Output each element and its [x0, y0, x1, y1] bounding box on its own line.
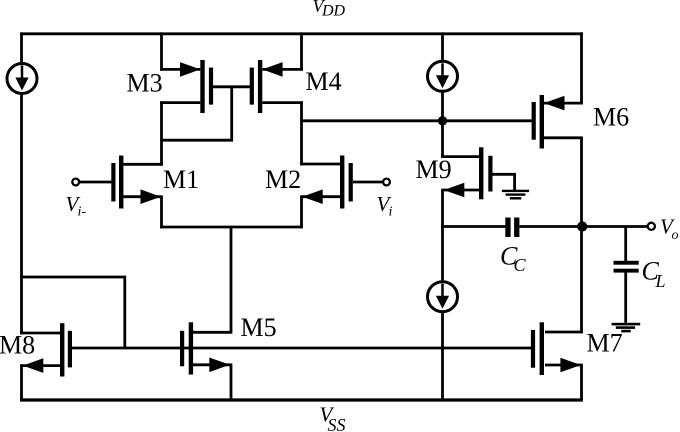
- transistor M6 gate bar: [532, 102, 536, 140]
- transistor M1 source arrow: [141, 189, 161, 204]
- wire VDD to current source I2: [441, 32, 444, 60]
- wire tail dropper to M5 drain: [230, 227, 233, 334]
- wire M1 gate lead: [79, 181, 111, 184]
- svg-text:M2: M2: [265, 165, 301, 194]
- wire M3 drain lead: [160, 101, 200, 104]
- current source I3 arrowhead: [436, 296, 449, 309]
- wire M2 gate lead: [353, 181, 383, 184]
- capacitor CL top plate: [614, 261, 639, 265]
- capacitor CL bottom plate: [614, 269, 639, 273]
- transistor M2 gate bar: [349, 163, 353, 202]
- wire M8 drain lead: [20, 332, 60, 335]
- wire first stage output to M6 gate: [302, 119, 533, 122]
- wire M4 drain down to M2 drain: [300, 101, 303, 165]
- svg-text:M6: M6: [593, 103, 629, 132]
- transistor M8 channel bar: [60, 323, 64, 376]
- wire M8 source to VSS: [20, 364, 23, 400]
- current source I1 circle: [7, 64, 37, 94]
- wire M6 source vertical from VDD: [580, 32, 583, 104]
- wire VDD rail: [20, 32, 583, 35]
- transistor M5 gate bar: [180, 331, 184, 367]
- wire left branch: VDD to current source I1: [20, 32, 23, 62]
- input terminal Vi: [383, 179, 390, 186]
- current source I2 arrow shaft: [441, 63, 444, 78]
- wire M8 source lead: [20, 364, 60, 367]
- wire current source I3 to VSS: [441, 313, 444, 400]
- transistor M2 channel bar: [340, 156, 344, 209]
- wire M6 source lead: [544, 102, 583, 105]
- wire M6 drain lead: [544, 136, 583, 139]
- transistor M9 source arrow: [444, 183, 465, 198]
- wire M2 source down to tail: [300, 195, 303, 228]
- current source I1 arrowhead: [15, 78, 28, 91]
- wire VSS rail: [20, 398, 583, 401]
- wire differential pair tail: [160, 226, 303, 229]
- wire M7 drain lead: [545, 331, 583, 334]
- capacitor CC left plate: [505, 218, 510, 238]
- transistor M7 source arrow: [560, 358, 581, 373]
- svg-text:M9: M9: [416, 155, 452, 184]
- transistor M1 channel bar: [119, 156, 123, 209]
- wire CL top: [624, 227, 627, 262]
- wire M5 source to VSS: [230, 364, 233, 401]
- svg-text:o: o: [672, 228, 679, 243]
- transistor M5 source arrow: [209, 358, 230, 373]
- transistor M8 gate bar: [68, 331, 72, 368]
- svg-text:M1: M1: [163, 165, 199, 194]
- wire M9 drain lead: [441, 155, 479, 158]
- transistor M2 source arrow: [302, 189, 323, 204]
- wire mirror gate line M8-M5-M7: [70, 347, 532, 350]
- current source I3 arrow shaft: [441, 284, 444, 299]
- svg-text:M7: M7: [587, 329, 623, 358]
- input terminal Vi-: [72, 179, 79, 186]
- svg-text:M4: M4: [306, 67, 342, 96]
- current source I3 circle: [428, 282, 458, 312]
- wire M3 source vertical from VDD: [160, 32, 163, 70]
- wire M5 source lead: [193, 363, 231, 366]
- wire M7 source to VSS: [580, 364, 583, 400]
- current source I2 arrowhead: [436, 75, 449, 88]
- wire Cc node down to current source I3: [441, 225, 444, 280]
- wire M1 drain lead: [123, 163, 163, 166]
- ground symbol below CL: [612, 323, 641, 326]
- wire Cc left: [441, 225, 505, 228]
- transistor M7 gate bar: [531, 330, 535, 368]
- wire M4 drain lead: [262, 101, 303, 104]
- wire M9 gate lead: [493, 174, 515, 190]
- wire M4 source vertical from VDD: [300, 32, 303, 70]
- current source I2 circle: [428, 61, 458, 91]
- wire output node to Vo terminal: [582, 225, 648, 228]
- current source I1 arrow shaft: [21, 66, 24, 81]
- svg-text:M3: M3: [127, 69, 163, 98]
- transistor M3 channel bar: [200, 60, 204, 113]
- wire Cc right to output node: [519, 225, 581, 228]
- wire M7 source lead: [545, 364, 582, 367]
- svg-text:DD: DD: [321, 3, 346, 20]
- wire CL bottom to ground: [624, 272, 627, 322]
- wire M1 source down to tail: [160, 195, 163, 228]
- wire M9 source lead: [443, 189, 480, 192]
- transistor M3 source arrow: [180, 62, 200, 77]
- svg-text:C: C: [514, 255, 527, 275]
- wire M9 source down to Cc node: [441, 189, 444, 228]
- transistor M3 gate bar: [209, 68, 213, 105]
- wire M1 source lead: [123, 195, 161, 198]
- transistor M8 source arrow: [23, 358, 44, 373]
- wire M2 source lead: [302, 195, 341, 198]
- output terminal Vo: [648, 223, 655, 230]
- transistor M5 channel bar: [189, 322, 193, 374]
- wire M6 drain to output node to M7 drain: [580, 138, 583, 333]
- wire M3-M4 gate connection: [211, 85, 252, 88]
- svg-text:SS: SS: [328, 415, 346, 432]
- wire M3 drain down to M1 drain: [160, 101, 163, 165]
- svg-text:i: i: [389, 205, 393, 220]
- transistor M4 source arrow: [262, 62, 282, 77]
- svg-text:M5: M5: [241, 313, 277, 342]
- output node junction dot: [577, 221, 587, 231]
- capacitor CC right plate: [514, 218, 519, 238]
- wire M4 source lead: [262, 68, 303, 71]
- node A junction dot: [438, 116, 447, 125]
- wire M3 source lead: [160, 68, 200, 71]
- wire M5 drain lead: [193, 331, 231, 334]
- svg-text:i-: i-: [78, 205, 87, 220]
- wire M8 gate-drain diode connection: [22, 277, 125, 348]
- transistor M4 channel bar: [258, 60, 262, 113]
- transistor M1 gate bar: [111, 163, 115, 202]
- wire gate-to-drain dropper of M3: [160, 87, 232, 140]
- transistor M6 source arrow: [544, 96, 565, 111]
- wire M2 drain lead: [300, 163, 340, 166]
- wire node A down to M9 drain: [441, 121, 444, 158]
- transistor M4 gate bar: [250, 68, 254, 105]
- wire current source I1 to M8 drain: [20, 95, 23, 335]
- svg-text:L: L: [655, 271, 666, 291]
- ground symbol at M9 gate: [502, 190, 529, 192]
- wire current source I2 to node A: [441, 92, 444, 120]
- transistor M6 channel bar: [540, 95, 544, 149]
- transistor M9 channel bar: [479, 147, 483, 199]
- transistor M9 gate bar: [488, 156, 492, 192]
- svg-text:M8: M8: [0, 331, 35, 360]
- transistor M7 channel bar: [540, 322, 544, 375]
